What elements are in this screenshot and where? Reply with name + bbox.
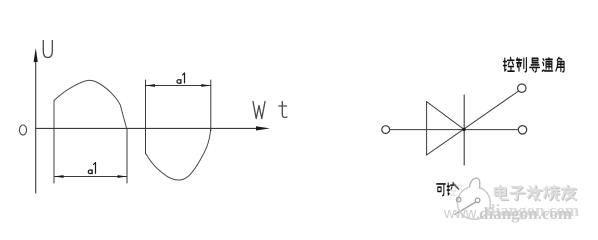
node watermark logo slash: [455, 202, 476, 214]
node cathode bar: [463, 95, 465, 165]
控: [447, 183, 456, 196]
terminal cathode circle: [518, 126, 526, 134]
terminal gate circle: [518, 84, 526, 92]
node label gui1 residual strokes (third char of ke3kong4gui1, mostly erased by watermark): [458, 184, 464, 191]
node watermark logo head hook: [470, 178, 480, 188]
svg-text:diangon.com: diangon.com: [479, 204, 572, 223]
node watermark text shadow pass: [496, 187, 577, 201]
制: [516, 58, 526, 72]
node dimension arrows alpha1 upper: [146, 84, 211, 87]
wire waveform negative half-cycle: [146, 130, 211, 181]
控: [504, 58, 515, 72]
node Y-axis arrowhead: [34, 48, 38, 62]
node junction dot: [462, 128, 465, 131]
node X-axis Wt: [36, 127, 257, 129]
通: [542, 58, 552, 71]
wire dimension extension line right of alpha1 upper: [210, 80, 212, 131]
node watermark logo arm stroke: [453, 183, 459, 189]
可: [437, 184, 446, 196]
transistor thyristor triangle: [427, 102, 464, 155]
svg-text:www.: www.: [443, 205, 480, 222]
node label alpha1 upper: [177, 73, 185, 83]
wire dimension extension line right of alpha1 lower: [126, 128, 128, 183]
node watermark logo right eye: [475, 198, 480, 203]
node watermark white halo: [449, 176, 503, 222]
wire dimension extension line left of alpha1 lower: [53, 128, 55, 183]
node watermark logo left eye: [456, 197, 461, 202]
node label O origin: [19, 125, 26, 135]
node label Wt: [253, 102, 287, 119]
node watermark text light pass: [495, 186, 576, 200]
node dimension arrows alpha1 lower: [54, 175, 127, 178]
terminal anode circle: [382, 126, 390, 134]
node label alpha1 lower: [88, 163, 95, 174]
wire gate line through apex: [427, 91, 519, 155]
node label kong4zhi4dao3tong1jiao3 (control conduction angle): [504, 58, 565, 72]
node X-axis arrowhead: [256, 126, 270, 130]
wire main horizontal: [390, 129, 519, 131]
wire dimension line alpha1 upper: [146, 85, 211, 87]
角: [556, 58, 564, 72]
node watermark logo circle: [457, 188, 490, 220]
wire waveform positive half-cycle: [54, 80, 127, 128]
node Y-axis U: [35, 52, 37, 193]
node label ke3kong4 (thyristor): [437, 183, 457, 196]
wire dimension line alpha1 lower: [54, 176, 127, 178]
wire dimension extension line left of alpha1 upper: [145, 80, 147, 154]
node label U: [43, 41, 52, 58]
导: [530, 58, 540, 72]
